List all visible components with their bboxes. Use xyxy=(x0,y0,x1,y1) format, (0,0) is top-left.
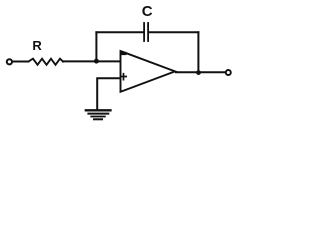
svg-text:R: R xyxy=(32,38,42,53)
svg-text:C: C xyxy=(142,3,153,20)
